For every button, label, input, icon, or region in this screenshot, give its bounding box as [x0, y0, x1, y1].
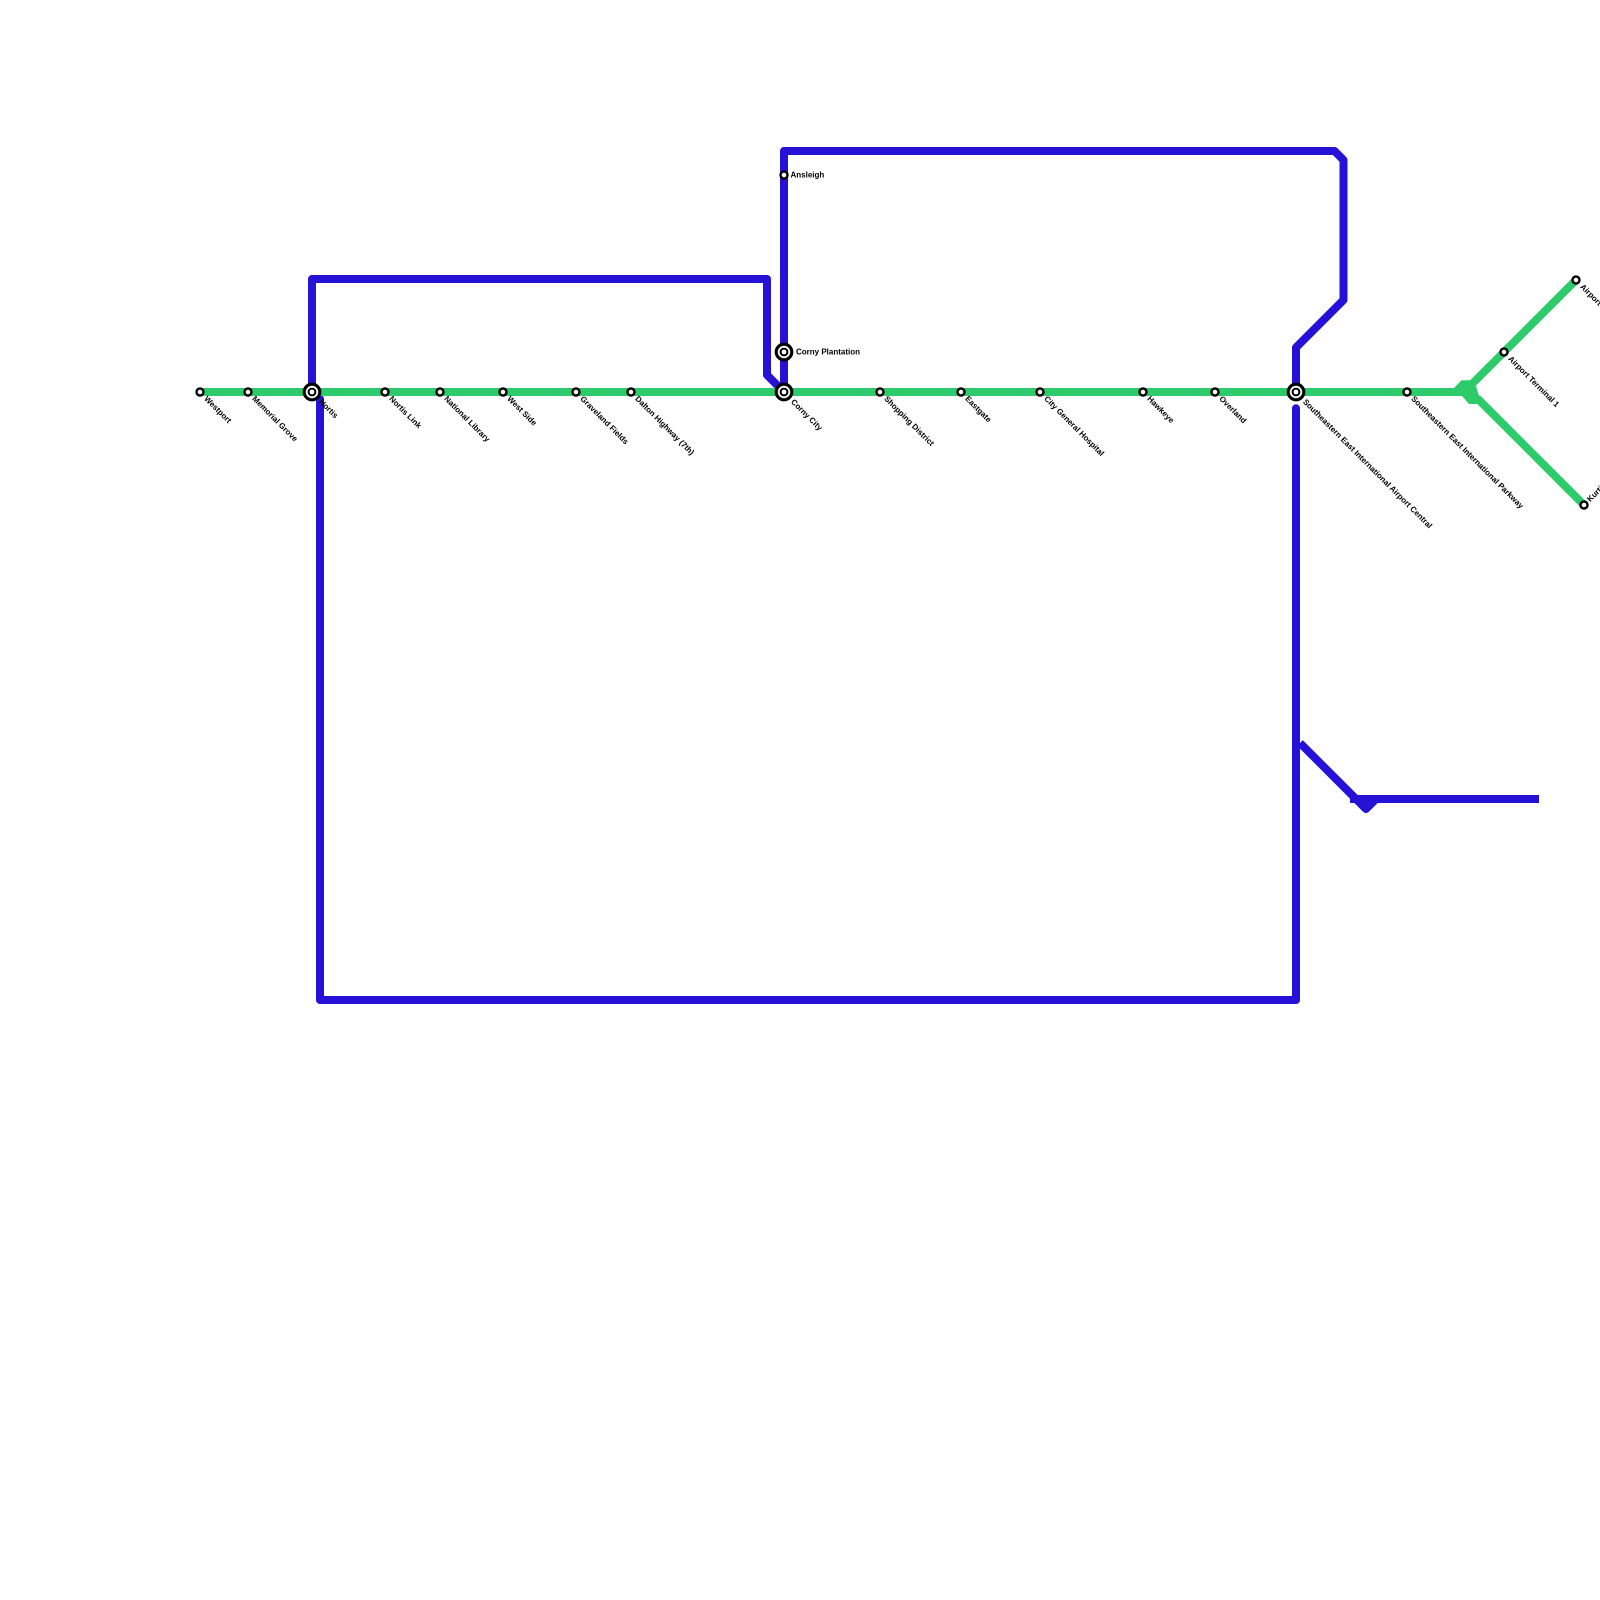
node Graveland Fields	[573, 389, 631, 447]
wire: blue loop line (outer)	[784, 151, 1344, 392]
node Corny City (interchange)	[776, 384, 824, 433]
node Overland	[1212, 389, 1249, 426]
wire: blue east branch horizontal	[1350, 795, 1539, 803]
node Nortis (interchange)	[304, 384, 340, 420]
node Westport	[197, 389, 234, 426]
node City General Hospital	[1037, 389, 1106, 458]
node Corny Plantation (interchange)	[776, 344, 860, 360]
node Eastgate	[958, 389, 994, 425]
wire: blue inner loop (Nortis to Corny City)	[312, 279, 783, 392]
node Southeastern East International Parkway	[1404, 389, 1526, 511]
node Southeastern East International Airport Central (interchange)	[1288, 384, 1434, 530]
wire: green airport branch (up)	[1464, 280, 1576, 392]
svg-text:Corny Plantation: Corny Plantation	[796, 348, 860, 357]
node Hawkeye	[1140, 389, 1177, 426]
wire: green main line	[200, 388, 1466, 396]
node Dalton Highway (7th)	[628, 389, 697, 458]
svg-text:Ansleigh: Ansleigh	[791, 171, 825, 180]
wire: blue east branch diagonal	[1300, 743, 1356, 799]
node Ansleigh	[781, 171, 825, 180]
node Airport Terminal 1	[1501, 349, 1562, 410]
wire: green fork bulge	[1454, 380, 1479, 404]
node West Side	[500, 389, 540, 429]
node Kurtis	[1581, 481, 1600, 509]
wire: blue east branch v-spur	[1355, 798, 1377, 809]
node Nortis Link	[382, 389, 424, 431]
node Shopping District	[877, 389, 937, 449]
wire: blue loop line (right vertical below airport, bottom, left vertical)	[313, 392, 1296, 1000]
node National Library	[437, 389, 493, 445]
wire: green south branch (down)	[1477, 398, 1584, 505]
node Memorial Grove	[245, 389, 300, 444]
node Airport Terminal 2	[1573, 277, 1600, 338]
